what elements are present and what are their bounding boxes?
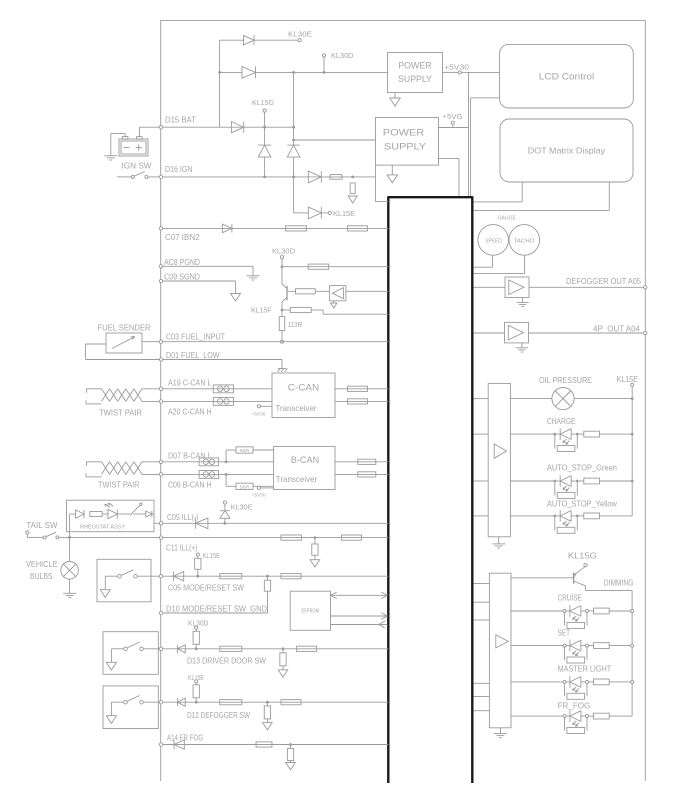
svg-text:D16 IGN: D16 IGN (165, 165, 193, 174)
svg-text:AC8 PGND: AC8 PGND (164, 258, 200, 267)
svg-text:C03 FUEL_INPUT: C03 FUEL_INPUT (166, 333, 225, 342)
svg-text:+5V30: +5V30 (252, 411, 266, 417)
svg-text:Transceiver: Transceiver (276, 474, 318, 484)
svg-text:OIL PRESSURE: OIL PRESSURE (539, 376, 592, 385)
svg-text:AUTO_STOP_Green: AUTO_STOP_Green (547, 463, 617, 472)
svg-text:+5V30: +5V30 (444, 65, 469, 72)
svg-text:C05 MODE/RESET SW: C05 MODE/RESET SW (168, 583, 244, 592)
svg-text:A14 FR FOG: A14 FR FOG (167, 734, 203, 743)
svg-text:BULBS: BULBS (30, 572, 53, 581)
svg-text:KL30E: KL30E (288, 30, 312, 39)
svg-text:C09 SGND: C09 SGND (164, 273, 200, 282)
svg-text:D01 FUEL_LOW: D01 FUEL_LOW (166, 351, 220, 360)
svg-text:LCD Control: LCD Control (539, 72, 595, 82)
svg-text:KL15G: KL15G (568, 551, 597, 560)
svg-text:SPEED: SPEED (485, 238, 501, 244)
svg-text:+5VG: +5VG (443, 114, 463, 121)
svg-text:TWIST PAIR: TWIST PAIR (98, 481, 140, 490)
svg-text:FUEL SENDER: FUEL SENDER (98, 323, 151, 332)
svg-text:RHEOSTAT ASSY: RHEOSTAT ASSY (80, 524, 125, 530)
svg-text:A19 C-CAN L: A19 C-CAN L (168, 379, 212, 388)
svg-text:KL15E: KL15E (203, 553, 221, 560)
svg-text:B-CAN: B-CAN (291, 455, 320, 466)
svg-text:DOT Matrix Display: DOT Matrix Display (528, 146, 606, 156)
svg-text:VEHICLE: VEHICLE (26, 560, 58, 569)
svg-text:KL30D: KL30D (331, 51, 354, 60)
svg-text:IGN SW: IGN SW (122, 161, 152, 170)
svg-text:KL15G: KL15G (252, 98, 274, 107)
svg-text:D15 BAT: D15 BAT (165, 116, 196, 125)
svg-text:KL30D: KL30D (188, 620, 209, 627)
svg-text:EEPROM: EEPROM (302, 609, 320, 615)
svg-text:KL30D: KL30D (272, 247, 296, 256)
svg-text:+5V30: +5V30 (252, 493, 266, 499)
svg-text:D10 MODE/RESET SW_GND: D10 MODE/RESET SW_GND (166, 605, 267, 614)
svg-text:KL15E: KL15E (333, 209, 355, 218)
svg-text:D12 DEFOGGER SW: D12 DEFOGGER SW (187, 711, 250, 720)
svg-text:CRUISE: CRUISE (558, 593, 582, 602)
svg-text:C07 IBN2: C07 IBN2 (165, 233, 200, 242)
svg-text:D13 DRIVER DOOR SW: D13 DRIVER DOOR SW (187, 656, 266, 665)
svg-text:GAUGE: GAUGE (498, 216, 516, 222)
svg-text:AUTO_STOP_Yellow: AUTO_STOP_Yellow (547, 499, 617, 508)
svg-text:SUPPLY: SUPPLY (398, 74, 432, 84)
svg-text:C05 ILL(-): C05 ILL(-) (167, 513, 199, 522)
svg-text:4P_OUT A04: 4P_OUT A04 (593, 324, 641, 333)
svg-text:KL15E: KL15E (617, 375, 638, 384)
svg-text:TWIST PAIR: TWIST PAIR (99, 409, 142, 418)
svg-text:C06 B-CAN H: C06 B-CAN H (168, 480, 212, 489)
svg-text:CHARGE: CHARGE (547, 417, 576, 426)
svg-text:POWER: POWER (398, 61, 432, 71)
svg-text:56R: 56R (240, 448, 250, 453)
svg-text:C-CAN: C-CAN (288, 382, 320, 393)
svg-text:FR_FOG: FR_FOG (558, 701, 591, 710)
svg-text:POWER: POWER (383, 128, 425, 138)
svg-text:DEFOGGER OUT A05: DEFOGGER OUT A05 (566, 277, 642, 286)
svg-text:KL30E: KL30E (231, 502, 253, 511)
svg-text:KL15F: KL15F (251, 306, 272, 315)
svg-text:A20 C-CAN H: A20 C-CAN H (168, 407, 212, 416)
svg-text:DIMMING: DIMMING (604, 578, 634, 587)
svg-text:TAIL SW: TAIL SW (26, 521, 57, 530)
svg-text:C11 ILL(+): C11 ILL(+) (166, 543, 198, 552)
svg-text:113R: 113R (288, 322, 303, 329)
svg-text:56R: 56R (240, 484, 250, 489)
svg-text:Transceiver: Transceiver (276, 403, 317, 413)
svg-text:TACHO: TACHO (514, 238, 536, 244)
svg-text:MASTER LIGHT: MASTER LIGHT (558, 664, 612, 673)
svg-text:SUPPLY: SUPPLY (384, 142, 426, 152)
svg-text:SET: SET (558, 628, 570, 637)
